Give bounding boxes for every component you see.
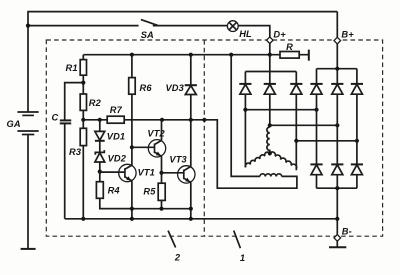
wire battery positive lead <box>27 12 29 112</box>
junction R3 bottom <box>81 217 85 221</box>
junction VT3 emitter ground <box>189 217 193 221</box>
svg-text:1: 1 <box>240 253 245 263</box>
dashed divider between regulator 2 and generator 1 <box>203 40 205 236</box>
wire rectifier bottom rail <box>317 187 357 189</box>
svg-text:VT2: VT2 <box>147 129 165 139</box>
svg-text:VD1: VD1 <box>107 132 125 142</box>
main diode column 5 <box>331 69 343 189</box>
stator winding phase A coil <box>245 152 269 167</box>
svg-text:R2: R2 <box>89 98 102 108</box>
wire regulator supply rail <box>83 54 308 56</box>
diode VD1 <box>95 131 105 140</box>
additional diode phase C column <box>290 72 302 171</box>
node B- <box>334 235 341 242</box>
wire B+ rectifier column <box>336 44 338 69</box>
svg-text:VD3: VD3 <box>166 83 185 93</box>
junction D+/rail <box>268 53 272 57</box>
wire VT3 collector <box>190 120 192 167</box>
junction stator star point <box>268 151 272 155</box>
svg-text:R3: R3 <box>69 147 82 157</box>
junction R2 R3 <box>81 118 85 122</box>
junction R6 top <box>130 53 134 57</box>
stator winding phase B coil <box>267 127 270 153</box>
junction phase B left <box>268 123 272 127</box>
wire VT2 collector <box>161 120 163 141</box>
wire field return to regulator <box>204 120 297 188</box>
wire phase B line <box>270 124 338 126</box>
wire B- column <box>336 188 338 234</box>
node D+ <box>267 37 274 44</box>
wire VT2 emitter to node <box>161 156 163 173</box>
wire D+ feed to additional rectifier <box>269 55 271 72</box>
wire C bottom <box>64 124 66 219</box>
wire base field line <box>83 119 204 121</box>
wire emitter rail <box>100 208 191 210</box>
resistor R <box>280 52 299 59</box>
junction VD3 VT3 collector <box>189 118 193 122</box>
wire lamp to D+ <box>238 26 270 37</box>
svg-text:HL: HL <box>239 29 252 39</box>
wire VD1 VD2 column <box>95 120 105 172</box>
junction VT3 emitter <box>189 207 193 211</box>
wire C branch top <box>65 83 84 120</box>
resistor R1 <box>80 60 86 76</box>
wire field supply branch <box>231 55 260 177</box>
lamp HL <box>227 21 238 32</box>
junction VT3 base R5 <box>159 171 163 175</box>
switch SA blade <box>141 20 158 26</box>
wire R6 VT1-collector column <box>131 55 133 165</box>
transistor VT1 <box>100 164 136 181</box>
battery GA <box>17 112 38 135</box>
junction VD2 R4 VT1 base <box>98 170 102 174</box>
junction emitter drop ground <box>130 217 134 221</box>
node B+ <box>334 37 341 44</box>
wire additional rectifier rail <box>245 71 296 73</box>
resistor R4 <box>96 172 131 209</box>
svg-text:2: 2 <box>174 253 181 263</box>
junction VT2 base tap <box>130 145 134 149</box>
leader line label 2 <box>168 231 176 248</box>
junction phase C left <box>294 139 298 143</box>
junction field supply <box>229 53 233 57</box>
junction B+ rail <box>335 67 339 71</box>
junction VD3 top <box>189 53 193 57</box>
junction ground rail B- <box>335 217 339 221</box>
leader line label 1 <box>234 231 241 249</box>
wire B- to chassis <box>336 241 338 247</box>
resistor R6 <box>129 78 136 95</box>
svg-text:B-: B- <box>342 227 352 237</box>
svg-text:GA: GA <box>7 119 21 129</box>
chassis ground battery <box>21 248 36 250</box>
svg-text:D+: D+ <box>273 30 286 40</box>
resistor R2 <box>80 94 86 110</box>
wire R1 R2 column <box>82 55 84 120</box>
wire VT1 emitter drop <box>131 181 133 219</box>
svg-text:VD2: VD2 <box>108 153 127 163</box>
wire rectifier top rail <box>317 68 357 70</box>
wire top line to B+ <box>27 11 337 13</box>
stator winding phase C coil <box>270 152 297 169</box>
junction VT1 emitter <box>130 207 134 211</box>
junction bottom rail B- <box>335 186 339 190</box>
svg-text:SA: SA <box>141 30 154 40</box>
svg-text:C: C <box>52 113 59 123</box>
chassis ground B- <box>329 246 346 248</box>
wire B+ drop from top line <box>336 12 338 38</box>
junction battery/SA <box>26 24 30 28</box>
resistor R5 <box>158 173 165 209</box>
junction phase C right <box>355 139 359 143</box>
junction phase A left <box>243 108 247 112</box>
svg-text:VT1: VT1 <box>138 167 155 177</box>
svg-text:R4: R4 <box>108 186 121 196</box>
wire battery negative lead <box>27 135 29 249</box>
transistor VT2 <box>132 140 166 157</box>
junction R5 bottom <box>159 207 163 211</box>
terminal regulator output <box>202 118 206 122</box>
wire D+ to regulator rail <box>269 43 271 55</box>
junction VT2 collector <box>160 118 164 122</box>
dashed enclosure outer box <box>46 40 382 236</box>
junction phase A right <box>314 108 318 112</box>
svg-text:R5: R5 <box>143 187 156 197</box>
additional diode phase B column <box>264 72 276 128</box>
junction C tap <box>81 81 85 85</box>
terminal bar right of R <box>308 50 310 61</box>
wire VT3 emitter drop <box>190 182 192 219</box>
transistor VT3 <box>162 166 196 183</box>
wire phase C line <box>296 140 357 142</box>
svg-text:R6: R6 <box>140 83 153 93</box>
rotor field winding <box>260 174 282 177</box>
wire phase A line <box>245 109 316 111</box>
svg-text:R: R <box>286 42 293 52</box>
wire R3 column <box>82 120 84 219</box>
capacitor C <box>60 120 71 123</box>
diode VD3 <box>185 55 197 120</box>
svg-text:VT3: VT3 <box>169 155 187 165</box>
svg-text:B+: B+ <box>341 30 354 40</box>
svg-text:R7: R7 <box>110 105 123 115</box>
wire SA branch <box>28 25 139 27</box>
junction VD1 top <box>98 118 102 122</box>
wire switch to lamp <box>153 25 228 27</box>
svg-text:R1: R1 <box>66 63 78 73</box>
resistor R3 <box>80 128 86 145</box>
main diode column 4 <box>310 69 322 189</box>
junction phase B right <box>335 123 339 127</box>
resistor R7 <box>107 116 124 123</box>
main diode column 6 <box>351 69 363 189</box>
wire regulator ground rail <box>65 218 338 220</box>
zener VD2 <box>95 150 104 155</box>
additional diode phase A column <box>239 72 251 168</box>
